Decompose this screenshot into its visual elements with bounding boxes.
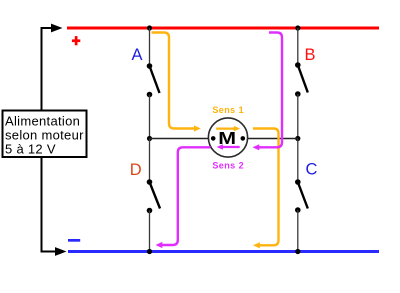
svg-text:5 à 12 V: 5 à 12 V	[5, 141, 56, 156]
wire motor to right node	[243, 138, 298, 140]
wire left node to motor	[150, 138, 214, 140]
node C-bottom junction	[295, 249, 300, 254]
sens1 current path: motor to C branch to - rail (orange)	[253, 129, 279, 246]
wire switch A to left motor node	[149, 95, 151, 139]
node + label	[72, 36, 80, 45]
arrowhead into + rail	[51, 24, 63, 33]
svg-text:A: A	[132, 46, 143, 64]
wire right node to switch C	[297, 139, 299, 183]
switch C	[295, 179, 308, 213]
svg-text:M: M	[218, 128, 236, 148]
switch D	[147, 179, 160, 213]
wire rail to switch A	[149, 28, 151, 66]
wire switch D to - rail	[149, 211, 151, 252]
label Alimentation selon moteur 5 à 12 V	[5, 114, 84, 157]
+V rail (red)	[67, 27, 379, 30]
svg-text:D: D	[130, 161, 142, 179]
node D-bottom junction	[147, 249, 152, 254]
svg-text:Alimentation: Alimentation	[5, 114, 80, 129]
node right motor junction	[295, 136, 300, 141]
wire switch C to - rail	[297, 210, 299, 252]
node - label	[68, 239, 80, 242]
wire rail to switch B	[297, 28, 299, 65]
motor inner arrow sens 2 (magenta)	[217, 144, 240, 149]
sens2 arrowhead at - rail	[156, 242, 163, 248]
arrowhead into - rail	[55, 247, 67, 256]
switch B	[295, 62, 308, 97]
svg-text:Sens 1: Sens 1	[212, 105, 244, 115]
wire left node to switch D	[149, 139, 151, 183]
svg-text:C: C	[306, 161, 318, 179]
motor inner arrow sens 1 (orange)	[216, 126, 240, 131]
sens2 current path: motor to D branch to - rail (magenta)	[162, 147, 211, 245]
sens1 current path: A to motor (orange)	[152, 33, 195, 129]
svg-text:Sens 2: Sens 2	[212, 161, 244, 171]
sens2 arrowhead into motor right	[253, 144, 260, 150]
switch A	[147, 63, 160, 97]
wire supply to - rail	[42, 157, 57, 252]
svg-text:B: B	[305, 46, 316, 64]
sens1 arrowhead at - rail	[253, 242, 260, 248]
wire switch B to right motor node	[297, 94, 299, 139]
0V rail (blue)	[68, 250, 379, 253]
sens2 current path: B to motor (magenta)	[259, 33, 282, 148]
node A-top junction	[147, 25, 152, 30]
wire supply to + rail	[42, 28, 53, 111]
node left motor junction	[147, 136, 152, 141]
sens1 arrowhead into motor left	[194, 125, 201, 131]
motor M1	[208, 118, 247, 157]
power supply box	[3, 111, 87, 158]
node B-top junction	[295, 25, 300, 30]
